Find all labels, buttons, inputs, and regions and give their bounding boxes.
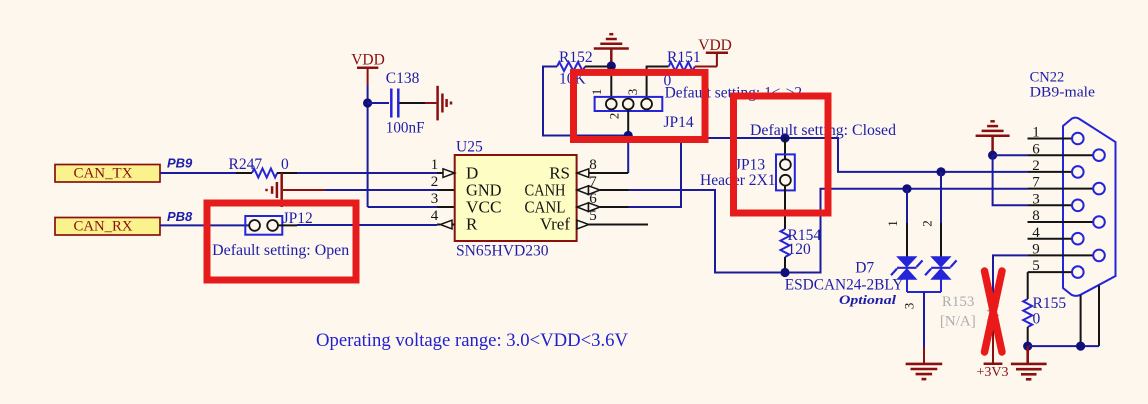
node CANH/D7 pin1 xyxy=(902,184,911,193)
port CAN_TX xyxy=(55,165,160,183)
DB9 pin 4 stub xyxy=(1028,238,1073,240)
svg-text:5: 5 xyxy=(1032,258,1040,274)
wire JP13 top xyxy=(784,138,786,160)
svg-text:0: 0 xyxy=(1033,311,1041,328)
node shell ground xyxy=(1076,342,1085,351)
svg-text:Operating voltage range: 3.0<V: Operating voltage range: 3.0<VDD<3.6V xyxy=(316,331,629,351)
jumper JP12 xyxy=(245,210,312,235)
wire JP14 pin1 xyxy=(610,66,612,99)
svg-text:7: 7 xyxy=(1032,175,1040,191)
svg-text:Header 2X1: Header 2X1 xyxy=(700,172,776,189)
svg-text:R155: R155 xyxy=(1033,295,1067,312)
wire JP14 pin2 down xyxy=(627,110,629,136)
svg-text:1: 1 xyxy=(431,157,439,173)
DB9 pin 8 stub xyxy=(1028,221,1094,223)
node RS net xyxy=(624,131,633,140)
wire R247 to U25 pin1 xyxy=(277,172,443,174)
connector CN22 labels xyxy=(1030,69,1096,100)
node ground/DB9 pin6 xyxy=(988,151,997,160)
ground (rotated earth at C138) xyxy=(438,86,451,121)
svg-text:1: 1 xyxy=(885,220,900,227)
svg-text:ESDCAN24-2BLY: ESDCAN24-2BLY xyxy=(785,276,904,293)
DB9 pin 6 stub xyxy=(1028,154,1093,156)
svg-text:R151: R151 xyxy=(667,49,701,66)
svg-text:4: 4 xyxy=(1032,225,1040,241)
svg-text:+3V3: +3V3 xyxy=(977,365,1009,380)
pin 1 arrow (D input) xyxy=(443,169,455,178)
svg-text:9: 9 xyxy=(1032,242,1040,258)
wire PB9 to R247 xyxy=(160,172,252,174)
diode D7b (TVS bidirectional) xyxy=(925,257,957,279)
svg-text:2: 2 xyxy=(1032,158,1040,174)
node CANL/D7 pin2 xyxy=(936,167,945,176)
svg-text:Default setting: Closed: Default setting: Closed xyxy=(750,122,896,139)
svg-text:R153: R153 xyxy=(942,294,975,310)
svg-text:Vref: Vref xyxy=(540,214,570,233)
wire RS net down to pin8 xyxy=(589,136,628,174)
svg-text:3: 3 xyxy=(902,303,917,310)
jumper JP13 xyxy=(776,154,795,190)
node R155/ground xyxy=(1023,342,1032,351)
wire CANL (pin6 up and over to JP13/DB9 pin2) xyxy=(600,138,1028,207)
svg-text:U25: U25 xyxy=(456,139,483,156)
ground (inverted earth above JP14) xyxy=(594,34,629,66)
svg-text:2: 2 xyxy=(920,220,935,227)
resistor R152 xyxy=(557,49,593,87)
diode D7a (TVS bidirectional) xyxy=(891,257,923,279)
svg-text:R247: R247 xyxy=(229,156,263,173)
svg-text:DB9-male: DB9-male xyxy=(1030,85,1096,101)
DB9 pin 2 stub xyxy=(1028,171,1072,173)
svg-text:3: 3 xyxy=(431,191,439,207)
svg-text:[N/A]: [N/A] xyxy=(940,314,976,330)
svg-text:0: 0 xyxy=(281,156,289,173)
DB9 pin 3 stub xyxy=(1028,204,1072,206)
svg-text:1: 1 xyxy=(1032,125,1040,141)
svg-text:JP14: JP14 xyxy=(664,114,694,131)
svg-text:CAN_RX: CAN_RX xyxy=(74,218,133,234)
wire JP13 bottom to R154 xyxy=(784,185,786,229)
wire D7 pin1 xyxy=(906,189,908,257)
wire DB9 pin5 down to R155 xyxy=(1027,272,1029,299)
wire R152 right to gnd node xyxy=(585,66,611,68)
svg-text:CAN_TX: CAN_TX xyxy=(74,165,133,181)
svg-text:SN65HVD230: SN65HVD230 xyxy=(456,242,549,259)
port CAN_RX xyxy=(55,218,160,236)
pin 6 arrows (CANL bidir) xyxy=(577,203,600,212)
pin 7 arrows (CANH bidir) xyxy=(577,186,600,195)
node R154/CANH xyxy=(780,268,789,277)
DB9 pin 5 stub xyxy=(1028,271,1072,273)
svg-text:3: 3 xyxy=(625,89,640,96)
svg-text:D7: D7 xyxy=(855,260,874,277)
wire R152 left to RS net xyxy=(543,67,628,136)
highlight box JP12 xyxy=(207,203,356,280)
resistor R155 xyxy=(1023,295,1066,328)
capacitor C138 xyxy=(386,70,425,137)
svg-text:3: 3 xyxy=(1032,191,1040,207)
pin 4 arrow (R output) xyxy=(440,220,452,229)
wire junction to C138 xyxy=(368,102,389,104)
svg-text:100nF: 100nF xyxy=(386,120,425,137)
svg-text:C138: C138 xyxy=(386,70,420,87)
DB9 pin 1 stub xyxy=(1028,138,1073,140)
ground (earth below R155) xyxy=(1011,346,1047,379)
op-amp/transceiver U25 body xyxy=(455,139,577,260)
resistor R153 (N/A, gray) xyxy=(940,294,998,329)
connector CN22 DB9 outline xyxy=(1063,118,1116,296)
svg-text:5: 5 xyxy=(589,208,597,224)
wire D7 pin3 to ground xyxy=(907,279,941,364)
svg-text:7: 7 xyxy=(589,174,597,190)
wire Vref stub (NC) xyxy=(589,224,648,226)
node gnd/R152/JP14 pin1 xyxy=(607,61,616,70)
wire CANH (pin7 under JP13 to DB9 pin7) xyxy=(600,189,1028,273)
highlight box JP13 xyxy=(734,96,829,213)
jumper JP14 xyxy=(595,97,663,111)
power +3V3 (below R153) xyxy=(977,327,1009,380)
pin 8 arrow (RS input) xyxy=(577,169,589,178)
svg-text:8: 8 xyxy=(1032,208,1040,224)
svg-text:120: 120 xyxy=(788,241,812,258)
svg-text:8: 8 xyxy=(589,157,597,173)
wire CAN_RX to JP12 xyxy=(160,224,250,226)
svg-text:2: 2 xyxy=(431,174,439,190)
svg-text:4: 4 xyxy=(431,208,439,224)
wire DB9 shell to ground xyxy=(1028,286,1099,347)
wire D7 pin2 xyxy=(940,172,942,257)
svg-text:VDD: VDD xyxy=(351,52,385,69)
wire R155 bottom xyxy=(1027,327,1029,346)
ground (rotated earth at R247 output) xyxy=(267,173,282,207)
svg-text:6: 6 xyxy=(1032,141,1040,157)
DB9 pin 9 stub xyxy=(1028,254,1093,256)
node JP13 top (CANL) xyxy=(780,133,789,142)
DB9 pin circles left column xyxy=(1072,133,1084,278)
svg-text:R152: R152 xyxy=(559,49,593,66)
svg-text:R: R xyxy=(466,214,478,233)
DB9 pin circles right column xyxy=(1093,149,1105,261)
wire VDD to VCC xyxy=(368,85,455,207)
resistor R151 xyxy=(664,49,701,90)
resistor R247 xyxy=(229,156,290,178)
power VDD (at R151) xyxy=(698,37,732,67)
resistor R154 xyxy=(781,227,822,258)
svg-text:2: 2 xyxy=(607,113,622,120)
svg-text:6: 6 xyxy=(589,191,597,207)
ground (inverted earth above DB9 pin6) xyxy=(976,121,1010,155)
power VDD (at C138) xyxy=(351,52,385,86)
wire R154 bottom xyxy=(784,257,786,273)
not-fitted cross over R153 xyxy=(985,271,1003,352)
svg-text:CN22: CN22 xyxy=(1030,69,1065,85)
wire JP12 to U25 pin4 xyxy=(278,224,441,227)
node VDD junction xyxy=(363,98,372,107)
svg-text:Default setting: Open: Default setting: Open xyxy=(212,242,349,259)
wire JP14 pin3 to R151 xyxy=(647,67,669,99)
ground (earth below D7) xyxy=(906,364,943,379)
svg-text:Optional: Optional xyxy=(839,292,896,307)
wire ground to pin6 and pin3 xyxy=(993,155,1028,205)
svg-text:PB8: PB8 xyxy=(167,209,193,224)
svg-text:PB9: PB9 xyxy=(167,155,193,170)
DB9 pin 7 stub xyxy=(1028,188,1093,190)
highlight box JP14 xyxy=(574,72,706,139)
wire DB9 pin9 to R153 xyxy=(993,255,1028,299)
svg-text:1: 1 xyxy=(589,89,604,96)
svg-text:JP13: JP13 xyxy=(735,157,765,174)
wire C138 to ground xyxy=(400,102,437,104)
pin 5 arrow (Vref output) xyxy=(577,220,589,229)
wire R151 to VDD xyxy=(695,66,717,68)
wire pin4 arrow to box xyxy=(452,224,455,226)
wire ground to U25 pin2 (GND) xyxy=(283,189,455,191)
